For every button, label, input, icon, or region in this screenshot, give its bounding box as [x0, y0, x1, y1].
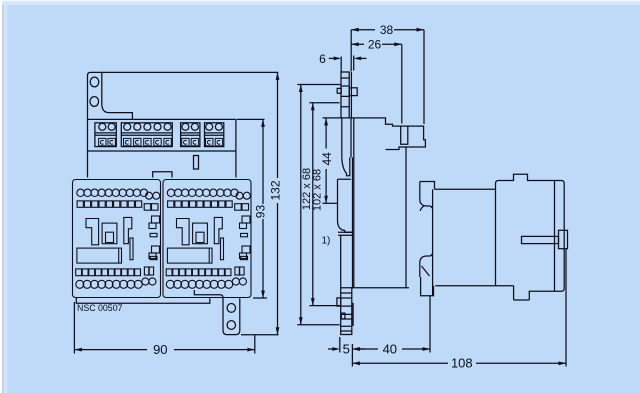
terminal group 2 divider	[121, 133, 172, 135]
terminal group 2 screw circles	[124, 123, 131, 130]
dimension 44 extension bottom	[323, 202, 338, 204]
dimension 102x68 line	[312, 103, 314, 306]
dimension 93 extension top	[237, 118, 265, 120]
svg-text:93: 93	[254, 205, 268, 219]
contactor clip foot	[421, 277, 434, 296]
dimension 102x68 arrows	[311, 103, 315, 306]
contactor rear clip profile	[420, 182, 435, 190]
dimension 38 line	[351, 29, 424, 31]
rail hook pocket	[342, 157, 350, 175]
dimension 44 extension top	[323, 117, 342, 119]
dimension 6 left arrow	[329, 57, 335, 59]
lower clip right line	[352, 303, 354, 326]
leader line under module 2	[194, 290, 223, 299]
bottom mounting bracket	[223, 298, 240, 334]
adapter body bottom	[341, 287, 409, 289]
dimension 108 arrows	[352, 361, 566, 365]
dimension 6 extensions	[341, 56, 354, 72]
dimension 5 left arrow	[328, 348, 337, 350]
dimension 26 arrows	[351, 42, 402, 46]
page border left white strip	[0, 0, 2, 393]
dimension 132 line	[277, 72, 279, 334]
tab on body top	[153, 172, 172, 178]
terminal group 1 box	[95, 123, 116, 147]
rear plate lower	[341, 157, 353, 287]
svg-text:38: 38	[380, 23, 394, 37]
terminal group 3 divider	[181, 133, 200, 135]
terminal group 3 screw circles	[182, 123, 189, 130]
top clip left tab	[337, 88, 341, 93]
svg-text:102 x 68: 102 x 68	[312, 169, 324, 211]
dimension 6 right arrow	[358, 57, 367, 59]
contactor body inner vertical	[554, 181, 556, 292]
dimension 108 line	[352, 362, 566, 364]
contactor body left section bottom	[435, 285, 513, 287]
lower clip stack	[341, 288, 352, 335]
dimension 108 extension right	[565, 249, 567, 367]
terminal group 1 screw circles	[99, 123, 106, 130]
dimension 44 arrows	[324, 118, 328, 203]
dimension 93 extension bottom	[253, 297, 267, 299]
svg-text:6: 6	[319, 52, 326, 66]
contactor module 1	[73, 180, 161, 298]
lower clip left tab	[337, 298, 341, 306]
dimension 132 extension top	[102, 71, 278, 73]
rear plate upper	[342, 118, 351, 157]
adapter body outline with top lug	[341, 118, 425, 150]
dimension 122x68 extension bottom	[297, 324, 339, 326]
dimension 5 right arrow	[356, 348, 365, 350]
rail box lines	[338, 232, 353, 235]
svg-text:40: 40	[383, 342, 397, 357]
dimension 93 line	[262, 119, 264, 298]
terminal group 3 clamps	[182, 138, 189, 145]
base tray line under modules	[76, 298, 210, 303]
dimension 122x68 arrows	[299, 85, 303, 325]
dimension 44 line	[325, 118, 327, 203]
page border top strip	[0, 0, 640, 2]
contactor body right section outline	[496, 174, 565, 300]
dimension 90 extension left	[73, 302, 75, 354]
dimension 122x68 line	[300, 85, 302, 325]
terminal group 2 box	[121, 123, 172, 147]
lug slot	[401, 126, 408, 144]
slot below housing	[194, 156, 199, 170]
terminal group 4 screw circles	[206, 123, 213, 130]
contactor T-handle bar	[522, 236, 559, 243]
terminal group 1 clamps	[99, 138, 106, 145]
dimension 5 extensions	[340, 337, 353, 367]
svg-text:108: 108	[451, 356, 473, 371]
lower clip inner box	[341, 313, 345, 319]
contactor body left section top	[435, 188, 496, 190]
dimension 90 arrows	[74, 348, 254, 352]
adapter body rear edge	[405, 147, 407, 288]
dimension 26 extension right	[401, 44, 403, 123]
dimension 38 arrows	[351, 28, 424, 32]
contactor module 2	[163, 180, 251, 298]
dimension 40 extension right	[429, 296, 431, 353]
terminal group 4 divider	[205, 133, 224, 135]
bottom bracket hole 2	[227, 321, 235, 330]
dimension 26/38 extension left	[350, 30, 352, 72]
dimension 40 line	[352, 348, 430, 350]
bottom bracket hole 1	[227, 304, 235, 313]
dimension 40 arrows	[352, 347, 430, 351]
terminal housing outer box	[88, 119, 236, 177]
dimension 122x68 extension top	[297, 84, 341, 86]
top bracket hole 2	[90, 97, 99, 107]
dimension 102x68 extension bottom	[310, 305, 341, 307]
dimension 26 line	[351, 43, 402, 45]
terminal group 3 box	[181, 123, 200, 147]
top mounting bracket	[88, 72, 133, 119]
adapter body front face	[353, 118, 355, 288]
extension line 26/38 left	[350, 72, 352, 118]
dimension 132 extension bottom	[241, 334, 279, 336]
svg-text:44: 44	[320, 152, 334, 166]
dimension 93 arrows	[261, 119, 265, 298]
svg-text:26: 26	[368, 37, 382, 51]
top bracket hole 1	[90, 77, 99, 87]
svg-text:1): 1)	[322, 236, 331, 247]
terminal group 4 clamps	[206, 138, 213, 145]
terminal group 1 divider	[95, 133, 116, 135]
dimension 90 line	[74, 349, 254, 351]
dimension 90 extension right	[254, 335, 256, 354]
svg-text:90: 90	[153, 342, 167, 357]
dimension 102x68 extension top	[310, 102, 340, 104]
svg-text:5: 5	[343, 342, 350, 357]
top rail clip column	[341, 72, 349, 118]
contactor T-handle cap	[559, 230, 568, 248]
mounting rail cross-section (1)	[338, 179, 353, 232]
top clip right tab	[349, 88, 357, 96]
terminal group 2 clamps	[124, 138, 131, 145]
dimension 38 extension right	[423, 30, 425, 124]
svg-text:132: 132	[269, 180, 283, 200]
terminal group 4 box	[205, 123, 224, 147]
dimension 132 arrows	[276, 72, 280, 334]
svg-text:NSC 00507: NSC 00507	[77, 303, 123, 313]
